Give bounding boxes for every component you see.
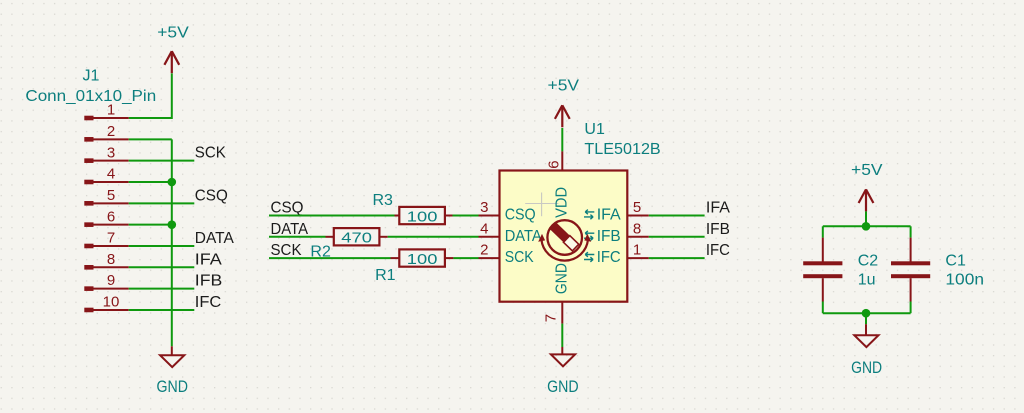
svg-text:CSQ: CSQ xyxy=(271,200,304,217)
svg-text:8: 8 xyxy=(633,220,641,237)
svg-text:DATA: DATA xyxy=(271,221,309,238)
svg-text:+5V: +5V xyxy=(851,162,883,179)
svg-text:SCK: SCK xyxy=(271,242,302,259)
svg-text:8: 8 xyxy=(107,251,115,268)
svg-text:1u: 1u xyxy=(858,272,876,289)
svg-text:100n: 100n xyxy=(945,272,984,289)
svg-text:R3: R3 xyxy=(373,192,394,209)
svg-text:TLE5012B: TLE5012B xyxy=(584,141,660,158)
svg-text:+5V: +5V xyxy=(548,77,580,94)
svg-text:6: 6 xyxy=(545,160,562,168)
svg-text:1: 1 xyxy=(633,242,641,259)
svg-text:7: 7 xyxy=(543,314,560,322)
svg-text:J1: J1 xyxy=(83,68,100,85)
svg-text:DATA: DATA xyxy=(195,230,234,247)
svg-text:+5V: +5V xyxy=(157,24,189,41)
svg-text:GND: GND xyxy=(156,377,188,396)
svg-text:SCK: SCK xyxy=(505,249,534,266)
svg-text:2: 2 xyxy=(480,242,488,259)
svg-text:Conn_01x10_Pin: Conn_01x10_Pin xyxy=(25,88,156,105)
svg-text:100: 100 xyxy=(407,251,438,268)
svg-text:CSQ: CSQ xyxy=(195,187,228,204)
svg-text:4: 4 xyxy=(480,220,488,237)
svg-text:C1: C1 xyxy=(945,253,966,270)
svg-text:100: 100 xyxy=(407,209,438,226)
svg-text:GND: GND xyxy=(547,377,579,396)
svg-text:470: 470 xyxy=(341,230,372,247)
svg-text:7: 7 xyxy=(107,230,115,247)
svg-text:CSQ: CSQ xyxy=(505,207,536,224)
svg-text:3: 3 xyxy=(107,144,115,161)
svg-text:SCK: SCK xyxy=(195,145,226,162)
svg-text:9: 9 xyxy=(107,272,115,289)
svg-text:5: 5 xyxy=(633,199,641,216)
svg-text:4: 4 xyxy=(107,166,115,183)
svg-text:C2: C2 xyxy=(858,253,879,270)
svg-text:IFC: IFC xyxy=(706,242,730,259)
svg-text:VDD: VDD xyxy=(554,187,571,218)
svg-text:GND: GND xyxy=(554,263,571,294)
svg-text:IFA: IFA xyxy=(195,251,222,268)
svg-text:GND: GND xyxy=(851,358,882,377)
svg-text:IFB: IFB xyxy=(597,228,621,245)
svg-text:5: 5 xyxy=(107,187,115,204)
svg-text:IFA: IFA xyxy=(597,207,621,224)
svg-text:3: 3 xyxy=(480,199,488,216)
svg-text:IFA: IFA xyxy=(706,200,730,217)
svg-text:R1: R1 xyxy=(375,267,396,284)
svg-text:IFB: IFB xyxy=(706,221,730,238)
svg-text:U1: U1 xyxy=(584,121,605,138)
svg-text:IFC: IFC xyxy=(597,249,621,266)
svg-text:6: 6 xyxy=(107,208,115,225)
svg-text:IFB: IFB xyxy=(195,273,223,290)
svg-text:DATA: DATA xyxy=(505,228,542,245)
svg-text:1: 1 xyxy=(107,102,115,119)
svg-text:IFC: IFC xyxy=(195,294,222,311)
svg-text:10: 10 xyxy=(103,294,120,311)
svg-text:2: 2 xyxy=(107,123,115,140)
